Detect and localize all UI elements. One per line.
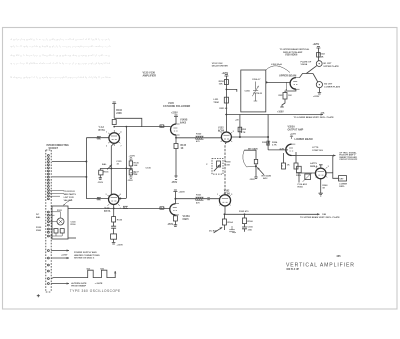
svg-text:R150: R150 <box>196 134 202 136</box>
wire: V145A plate to +225V <box>173 190 177 204</box>
svg-text:50V: 50V <box>100 268 104 270</box>
resistor on B1 supply <box>317 53 321 58</box>
svg-text:TO LOWER BEAM VERT. DEFL.: TO LOWER BEAM VERT. DEFL. PLATE <box>294 116 335 119</box>
divider at node 244.5 <box>244 214 245 215</box>
svg-text:10B: 10B <box>322 214 326 216</box>
node on +225 rail <box>226 114 227 115</box>
wire: V363 plate to drop <box>326 172 333 174</box>
tube V363 final output <box>315 168 326 179</box>
svg-text:SOCKET: SOCKET <box>49 148 59 150</box>
wire: to V353 grid <box>268 149 288 151</box>
tube pin stubs V162 <box>219 195 231 205</box>
+225V terminal above V145B <box>174 115 178 124</box>
+100V terminal above V353 <box>290 135 293 139</box>
wire: V363 left network <box>296 172 315 174</box>
wire: V135B output to V145A grid <box>114 205 170 209</box>
wire to -150V <box>175 149 177 177</box>
svg-text:5: 5 <box>233 131 234 133</box>
svg-text:1K: 1K <box>287 165 290 167</box>
svg-text:+100V: +100V <box>290 133 297 135</box>
svg-text:R366: R366 <box>296 175 302 177</box>
interconnecting socket (dashed column) <box>46 150 51 292</box>
grid stopper R on V135B grid wire <box>97 197 101 200</box>
trigger pickoff line from V353 <box>292 155 336 157</box>
wire: branch to network box <box>226 89 236 91</box>
svg-text:INT GAIN: INT GAIN <box>248 148 258 151</box>
registration mark <box>37 294 40 297</box>
tube V343 upper-beam output (half envelope) <box>290 78 296 90</box>
balance pot wiper <box>107 165 112 170</box>
svg-text:..,.: , : . . : : ..,.:., . .: ..,.: , : . . : : ..,.:., . . ,.. :.:.. … <box>10 45 111 48</box>
svg-text:6: 6 <box>121 132 122 134</box>
svg-text:B2 CRT: B2 CRT <box>324 84 333 86</box>
plate load branch V152 <box>239 115 241 138</box>
svg-text:R124: R124 <box>71 223 77 226</box>
cathode resistor R145 <box>174 144 178 149</box>
svg-text:+225V: +225V <box>61 255 68 257</box>
wire: V135A plate to V145B grid <box>114 126 170 128</box>
svg-text:250K: 250K <box>36 230 42 232</box>
wires inside box <box>49 212 62 236</box>
svg-text:C255: C255 <box>245 91 251 93</box>
svg-text:+225V: +225V <box>313 44 320 46</box>
svg-text:+225V: +225V <box>171 113 178 115</box>
svg-text:7: 7 <box>120 208 121 210</box>
wire: diagonal down to jack B2 <box>313 74 318 83</box>
svg-text:R257: R257 <box>279 95 285 97</box>
svg-text:BY7A: BY7A <box>104 210 111 213</box>
coupling line between V152 and V162 <box>225 142 226 195</box>
svg-text:R365: R365 <box>298 186 304 188</box>
svg-text:INTERCONNECTING: INTERCONNECTING <box>47 145 70 147</box>
resistor R150 on wire <box>196 136 204 139</box>
svg-text:R352: R352 <box>262 142 268 144</box>
svg-text:-150V: -150V <box>167 224 174 226</box>
compensation network box <box>241 70 266 112</box>
svg-text:C124: C124 <box>71 220 77 223</box>
svg-text:FROM SWEEP: FROM SWEEP <box>71 286 86 288</box>
wire: V152 plate <box>231 136 268 138</box>
svg-text:U.TTS: U.TTS <box>312 147 319 149</box>
gate waveform <box>51 270 115 278</box>
peaking coil L <box>224 97 228 103</box>
plate decoupling resistor <box>224 80 228 85</box>
dc-bal network box bottom left <box>52 206 68 239</box>
tube V145B cathode follower (half envelope) <box>171 124 177 135</box>
svg-text:4.7K: 4.7K <box>280 148 285 151</box>
svg-text:1: 1 <box>217 194 218 196</box>
svg-text:+225V: +225V <box>179 191 186 193</box>
input terminal above V363 <box>319 165 323 169</box>
label: sheet ghost noise <box>10 38 111 79</box>
svg-text:R251 68: R251 68 <box>219 108 228 110</box>
svg-text:POWER SUPPLY AND: POWER SUPPLY AND <box>74 251 97 254</box>
tube V353 lower-beam output (half envelope) <box>286 144 292 155</box>
node at box edge <box>266 82 267 83</box>
wire: socket pin to input bus (lower) <box>52 176 86 178</box>
node divider mid <box>126 168 127 169</box>
svg-text:HEATER CONNECTIONS: HEATER CONNECTIONS <box>74 254 100 257</box>
svg-text:-150V: -150V <box>249 179 255 181</box>
pin note wires <box>49 191 64 197</box>
+225V terminal top right <box>316 47 320 61</box>
svg-text::.: ..:.,.,..., , ,.,.:.,.,..: :.: ..:.,.,..., , ,.,.:.,.,.. : . : : , … <box>10 76 111 79</box>
svg-text:COMP SIG: COMP SIG <box>312 150 323 152</box>
svg-text:-150V: -150V <box>171 182 178 184</box>
svg-text:CIRCUIT PICKOFF: CIRCUIT PICKOFF <box>339 159 358 161</box>
svg-text:+ GATE: + GATE <box>95 282 103 285</box>
divider chain from plate line <box>125 127 127 198</box>
V135A cathode line down to V135B <box>111 143 114 194</box>
svg-text:R121: R121 <box>57 210 63 212</box>
svg-text:BY7A: BY7A <box>99 129 106 132</box>
svg-text:2.7K: 2.7K <box>272 145 277 147</box>
svg-text:R159: R159 <box>225 162 231 164</box>
node: V145B cathode <box>176 137 177 138</box>
node divider top <box>126 126 127 127</box>
svg-text:DEFL: DEFL <box>339 186 345 188</box>
svg-text:R354: R354 <box>272 141 278 144</box>
svg-text:1: 1 <box>314 166 315 168</box>
svg-text:DC BAL: DC BAL <box>209 230 218 233</box>
svg-text:10K: 10K <box>219 83 223 85</box>
svg-text:+100V: +100V <box>117 245 124 247</box>
svg-text:56K: 56K <box>134 165 138 167</box>
node input bus upper <box>86 161 87 162</box>
wire: V145A output to V162 grid <box>175 198 219 200</box>
wire: cathode network to divider chain <box>100 167 132 169</box>
socket pin contacts <box>48 155 50 285</box>
bias pot arrow <box>214 227 223 233</box>
wire: box to output node <box>68 207 114 209</box>
ground symbol <box>319 193 323 196</box>
svg-text:6AK5: 6AK5 <box>180 122 187 125</box>
svg-text:TYPE 360 OSCILLOSCOPE: TYPE 360 OSCILLOSCOPE <box>70 289 121 293</box>
svg-text:TO UPPER BEAM VERTICAL: TO UPPER BEAM VERTICAL <box>280 48 310 51</box>
node at line start <box>224 214 225 215</box>
plate resistor R134 <box>112 120 116 125</box>
svg-text:2: 2 <box>106 208 107 210</box>
svg-text:1: 1 <box>219 131 220 133</box>
tube V162 (lower push-pull amp) <box>219 195 230 206</box>
svg-text:LIST FOR: LIST FOR <box>64 197 74 199</box>
node: V135A plate <box>114 126 115 127</box>
plate load branch from rail <box>267 115 269 150</box>
svg-text:-150V: -150V <box>97 182 103 184</box>
svg-text:+225V: +225V <box>222 73 229 75</box>
svg-text:5: 5 <box>328 166 329 168</box>
neon/jack B1 <box>316 61 322 67</box>
grid return stub <box>285 82 287 90</box>
svg-text:OUTPUT AMP: OUTPUT AMP <box>288 129 304 132</box>
wire: bus to V135B grid <box>86 198 108 200</box>
tube pin stubs V363 <box>316 167 328 177</box>
svg-text:UPPER BEAM: UPPER BEAM <box>279 74 296 78</box>
svg-text:1K: 1K <box>181 148 184 150</box>
svg-text:ADJ: ADJ <box>263 177 268 180</box>
svg-text:6AK5: 6AK5 <box>183 218 190 221</box>
svg-text:C136: C136 <box>146 168 152 170</box>
connector box <box>339 176 347 181</box>
svg-text:BAL: BAL <box>36 216 41 219</box>
cathode gain network (dashed box) <box>212 159 223 175</box>
svg-text:R164: R164 <box>228 221 234 224</box>
tube pin stubs V135B <box>107 195 119 206</box>
tube V145A cathode follower (half envelope) <box>170 204 176 215</box>
node V145A plate <box>175 198 176 199</box>
svg-text:R145: R145 <box>181 144 187 147</box>
svg-text:VERTICAL AMPLIFIER: VERTICAL AMPLIFIER <box>286 262 355 268</box>
svg-text:+225V: +225V <box>313 96 320 98</box>
load resistor hatched <box>266 141 270 145</box>
svg-text:CATHODE FOLLOWER: CATHODE FOLLOWER <box>163 105 190 108</box>
svg-text:..:.,., :.:.: , , : . :..., ..: ..:.,., :.:.: , , : . :..., ... : ,., . … <box>10 54 110 57</box>
svg-text:R166: R166 <box>248 221 254 223</box>
svg-text:AMPLIFIER: AMPLIFIER <box>143 75 157 78</box>
svg-text:R135: R135 <box>104 172 110 174</box>
svg-text:DC: DC <box>36 214 40 216</box>
node input bus lower <box>86 176 87 177</box>
resistor R137 <box>129 170 132 175</box>
svg-text:R151: R151 <box>196 195 202 197</box>
wire: V162 cathode to deflection line <box>224 206 226 214</box>
node grid cap branch <box>226 89 227 90</box>
svg-text:6CB6: 6CB6 <box>224 192 231 195</box>
-150V terminal <box>174 176 177 179</box>
svg-text:C166: C166 <box>248 227 254 229</box>
tube V135A <box>109 133 120 144</box>
tube V135B <box>109 194 119 204</box>
wire: box bottom stub <box>68 237 76 239</box>
svg-text:4.7K: 4.7K <box>241 131 246 134</box>
resistor R136 <box>129 161 132 166</box>
svg-text:POS ADJ: POS ADJ <box>298 183 308 186</box>
node V135B plate <box>120 198 121 199</box>
svg-text:R343: R343 <box>320 53 326 56</box>
grid stopper at V145A <box>160 207 164 210</box>
cathode network of V343 <box>285 89 296 92</box>
svg-text:50V: 50V <box>87 268 91 270</box>
svg-text:C122 R122: C122 R122 <box>64 191 76 193</box>
svg-text:LOWER PLATE: LOWER PLATE <box>324 85 340 88</box>
svg-text:R134: R134 <box>116 109 122 112</box>
svg-text:1: 1 <box>106 132 107 134</box>
svg-text:R137: R137 <box>131 173 137 175</box>
wire below B2 to terminal <box>318 88 322 94</box>
svg-text:TO UPPER BEAM VERT. DEFL.: TO UPPER BEAM VERT. DEFL. PLATE <box>300 216 340 219</box>
wire: V145B cathode down <box>175 135 177 144</box>
deflection line (lower) to upper beam plate <box>224 213 319 215</box>
power pin arrows bottom <box>51 250 69 252</box>
wire: V145B cathode to V152 grid <box>176 137 221 139</box>
tube V152 (upper push-pull amp) <box>221 132 231 142</box>
wire: peaking branch <box>114 118 142 126</box>
adj pot at V363 <box>305 174 311 180</box>
svg-text:UPPER PLATE: UPPER PLATE <box>324 65 340 68</box>
tube pin stubs V152 <box>221 132 233 142</box>
V145A cathode chain <box>174 214 176 217</box>
svg-text:10A: 10A <box>321 111 325 114</box>
svg-text:VALUES: VALUES <box>64 199 73 202</box>
arc lead from gain network <box>243 151 255 167</box>
svg-text:SEE PARTS: SEE PARTS <box>64 193 77 196</box>
svg-text:220K: 220K <box>116 113 122 115</box>
cathode resistors of V353 <box>283 153 285 163</box>
svg-text:R165 470: R165 470 <box>239 210 249 213</box>
shielded lead arc to output grid <box>266 66 290 73</box>
input bus vertical <box>85 138 87 199</box>
svg-text:5: 5 <box>231 194 232 196</box>
wire chain mid <box>130 166 132 170</box>
wire: bus to V135A grid <box>86 137 109 139</box>
svg-text:22K: 22K <box>320 56 324 58</box>
svg-text:CRT: CRT <box>339 179 344 181</box>
svg-text:LOWER BEAM: LOWER BEAM <box>295 137 313 141</box>
wire: diagonal up to neon jack B1 <box>306 66 317 74</box>
note arrow to box <box>64 200 73 206</box>
svg-text:-150V: -150V <box>127 180 133 182</box>
svg-text:3: 3 <box>106 194 107 196</box>
grid stopper R on V135A grid wire <box>97 136 101 139</box>
wire chain bottom to terminal <box>129 175 132 179</box>
svg-text:+100V: +100V <box>277 112 284 114</box>
wire: output plate to deflection fork <box>300 74 314 78</box>
cathode bias resistor below <box>223 214 225 219</box>
node at cathode line <box>111 168 112 169</box>
svg-text:.., . , , . . : .., . :.: ,.:.: .., . , , . . : .., . :.: ,.:.:.:.:.... … <box>10 62 110 65</box>
svg-text:B1 CRT: B1 CRT <box>324 63 333 65</box>
balance pot circle <box>57 218 64 225</box>
svg-text:V350 6DK6: V350 6DK6 <box>285 54 298 57</box>
wire: pickoff line drop to connector <box>333 156 339 179</box>
ferrite beads on wire <box>207 198 210 200</box>
svg-text:V343A: V343A <box>301 63 308 66</box>
svg-text:2.5K: 2.5K <box>225 164 230 166</box>
wire: socket pin to input bus (upper) <box>52 161 86 163</box>
svg-text:465: 465 <box>336 254 341 258</box>
+225V terminal above V135A <box>112 102 116 118</box>
svg-text:12K: 12K <box>288 95 292 97</box>
tube pin stubs V135A <box>108 133 120 143</box>
trimmer cap inside box <box>253 82 258 102</box>
wire: bal network <box>99 168 101 170</box>
balance resistor box <box>99 170 103 175</box>
svg-text:360 PLX UP: 360 PLX UP <box>286 269 299 271</box>
+100V terminal feed chain <box>129 158 132 161</box>
deflection line (upper rail) to lower beam plate <box>225 114 323 116</box>
svg-text:..: ,.,.: ,.. , :..., ,.,...:.: ..: ,.,.: ,.. , :..., ,.,...:.: , , : . … <box>10 38 110 41</box>
svg-text:+100V: +100V <box>129 155 136 157</box>
svg-text:2: 2 <box>106 146 107 148</box>
svg-text:+4V: +4V <box>235 118 239 121</box>
svg-text:L350 82μH: L350 82μH <box>271 64 282 66</box>
+225V terminal top center <box>224 75 228 133</box>
V135B cathode network down <box>113 208 115 216</box>
svg-text:R120: R120 <box>36 227 42 229</box>
svg-text:ALTERN GATE: ALTERN GATE <box>71 282 87 285</box>
svg-text:DELAY DRIVER: DELAY DRIVER <box>212 65 228 68</box>
svg-text:TRIM: TRIM <box>213 102 219 104</box>
svg-text:C254 4.7: C254 4.7 <box>252 78 261 81</box>
svg-text:LATTS: LATTS <box>310 162 317 165</box>
wire: -150V drop <box>99 175 102 179</box>
node on plate wire <box>268 136 269 137</box>
label: pin numbers V135A <box>106 131 329 210</box>
svg-text:R139: R139 <box>117 220 123 222</box>
svg-text:SHOWN ON DIAG 5: SHOWN ON DIAG 5 <box>74 257 95 260</box>
svg-text:PLATE OF: PLATE OF <box>301 61 312 64</box>
jack B2 <box>316 82 322 88</box>
wire: box to upper output grid <box>266 81 290 83</box>
grid stopper R at V145B <box>160 125 164 128</box>
R blob near divider bottom <box>123 206 128 208</box>
gain adj pot right <box>244 150 258 178</box>
wire: divider to V135B plate <box>119 198 127 200</box>
box resistors <box>54 229 58 233</box>
svg-text:BAL: BAL <box>102 163 107 166</box>
resistor R151 on wire <box>196 197 204 200</box>
wire: V363 cathode to ground <box>320 179 322 194</box>
cap at bias <box>229 226 236 233</box>
svg-text:7: 7 <box>121 146 122 148</box>
svg-text:6: 6 <box>120 194 121 196</box>
